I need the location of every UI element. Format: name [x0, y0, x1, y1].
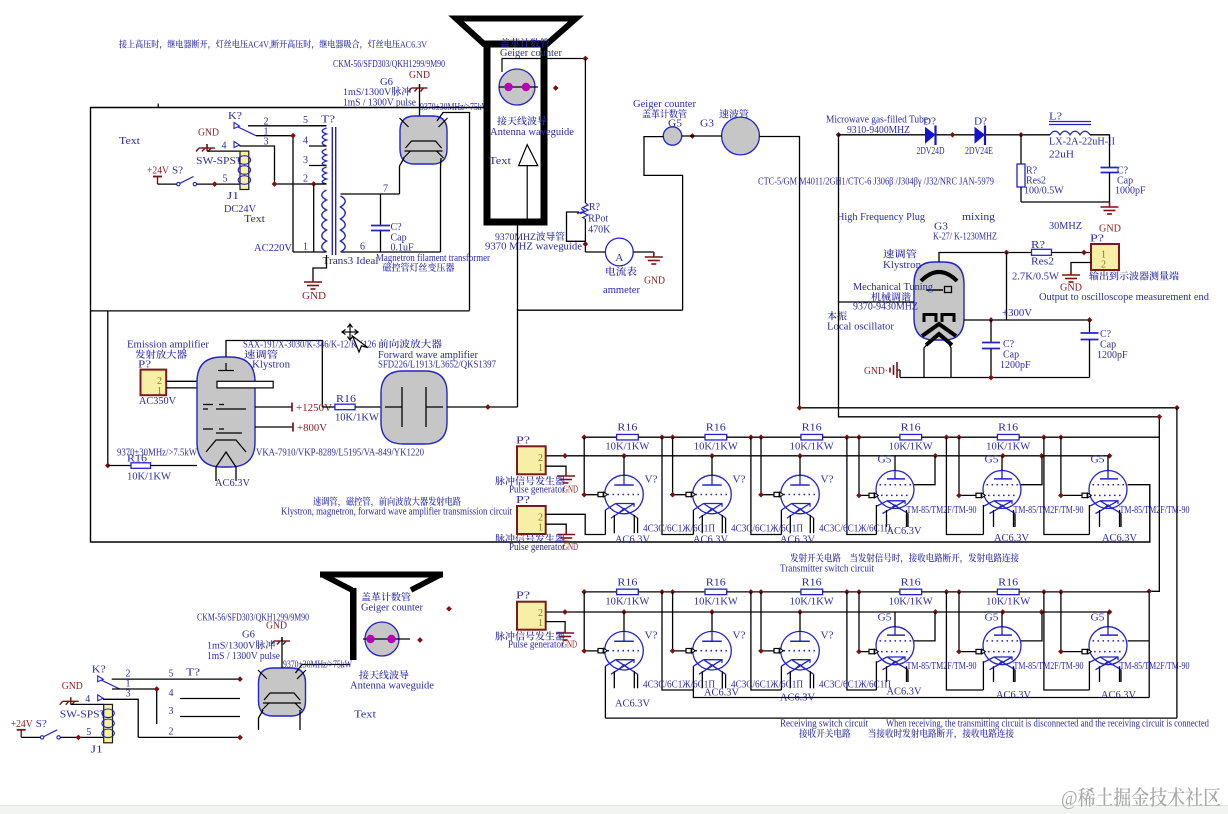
svg-text:5: 5 [303, 115, 308, 126]
net B down from diode line [839, 135, 1160, 698]
screen tap G5 cell4 [914, 612, 935, 641]
svg-text:V?: V? [733, 631, 747, 642]
svg-text:470K: 470K [588, 225, 611, 236]
waveguide output wire down [517, 225, 519, 407]
resistor R16 cell2 row2 [705, 589, 727, 595]
svg-text:TM-85/TM2F/TM-90: TM-85/TM2F/TM-90 [1120, 505, 1190, 516]
mechanical tuning wire [839, 301, 915, 303]
tube V5 row2 (tetrode G5) [983, 627, 1021, 670]
bottom bus row2 [605, 717, 1177, 719]
svg-text:G6: G6 [242, 630, 255, 641]
svg-text:1: 1 [303, 242, 308, 253]
svg-text:4C3C/6C1Ж/6C1П: 4C3C/6C1Ж/6C1П [643, 524, 715, 535]
note text top [119, 39, 427, 49]
wire R16 rail seg [584, 591, 616, 593]
svg-text:5: 5 [169, 668, 174, 679]
wire from geiger out down to pot [584, 59, 586, 204]
tube V1 row1 (triode V?) [605, 475, 644, 518]
left outer leg [875, 505, 877, 535]
left outer leg [982, 661, 984, 690]
anode lead [1107, 456, 1109, 471]
svg-text:Pulse generator: Pulse generator [509, 484, 566, 495]
svg-text:1200pF: 1200pF [1000, 360, 1031, 371]
heater jog wire cell3-4 [847, 437, 877, 534]
wire bottom LC [1021, 201, 1110, 203]
magnetron1 lead to 9370 wire [437, 113, 470, 311]
svg-text:Pulse generator: Pulse generator [508, 640, 565, 651]
tube V1 row2 (triode V?) [605, 631, 644, 674]
svg-text:4: 4 [85, 694, 90, 705]
labels klystron [883, 249, 916, 258]
left outer leg [780, 510, 782, 535]
left outer leg [604, 510, 606, 535]
svg-text:AC350V: AC350V [139, 396, 177, 407]
magnetron1 cathode leads [400, 158, 405, 194]
anode lead [1001, 612, 1003, 627]
svg-text:10K/1KW: 10K/1KW [889, 596, 934, 607]
svg-text:AC6.3V: AC6.3V [215, 478, 251, 489]
cavity slot [217, 381, 273, 388]
svg-text:J1: J1 [91, 744, 103, 755]
svg-text:10K/1KW: 10K/1KW [694, 596, 739, 607]
tube V2 row2 (triode V?) [693, 631, 732, 674]
heater legs [994, 666, 1016, 682]
svg-text:R16: R16 [617, 577, 637, 588]
svg-text:AC6.3V: AC6.3V [615, 699, 651, 710]
svg-text:Cap: Cap [1003, 350, 1019, 361]
svg-text:R16: R16 [706, 423, 726, 434]
heater jog wire cell4-5 [946, 437, 983, 534]
heater jog wire cell4-5 [946, 592, 983, 690]
heater legs [1100, 666, 1122, 682]
grid rail [1061, 437, 1082, 495]
tube V3 row2 (triode V?) [781, 631, 820, 674]
wire R16 rail seg [823, 436, 900, 438]
resistor R? Res2 2.7K [1032, 249, 1052, 255]
+1250V tap [255, 406, 292, 408]
left outer leg [875, 661, 877, 690]
anode lead [623, 456, 625, 476]
svg-text:GND: GND [62, 681, 83, 692]
capacitor C? 1200pF right [1089, 320, 1091, 333]
left outer leg [982, 505, 984, 535]
anode lead [711, 456, 713, 476]
svg-text:TM-85/TM2F/TM-90: TM-85/TM2F/TM-90 [907, 505, 977, 516]
svg-text:1: 1 [538, 618, 543, 629]
bottom page strip [0, 805, 1228, 814]
left outer leg [1088, 661, 1090, 690]
svg-text:D?: D? [923, 116, 937, 127]
klystron top lead [939, 253, 1032, 263]
resistor R16 cell5 row2 [997, 589, 1019, 595]
label 9370MHZ waveguide [495, 232, 564, 241]
svg-text:AC6.3V: AC6.3V [887, 526, 923, 537]
svg-text:Text: Text [244, 214, 265, 225]
label antenna waveguide [497, 116, 546, 125]
svg-text:4C3C/6C1Ж/6C1П: 4C3C/6C1Ж/6C1П [731, 524, 803, 535]
svg-text:Geiger counter: Geiger counter [361, 603, 424, 614]
svg-text:Receiving switch circuit: Receiving switch circuit [780, 719, 868, 730]
wire diode row [839, 134, 926, 136]
watermark [1062, 787, 1220, 809]
heater jog wire cell1-2 [662, 437, 693, 534]
svg-text:GND: GND [409, 70, 430, 81]
svg-text:TM-85/TM2F/TM-90: TM-85/TM2F/TM-90 [1014, 505, 1084, 516]
T?2 stub wires [112, 678, 240, 680]
svg-text:10K/1KW: 10K/1KW [605, 442, 650, 453]
grid rail [959, 437, 976, 495]
potentiometer R? RPot [583, 203, 588, 219]
svg-text:4C3C/6C1Ж/6C1П: 4C3C/6C1Ж/6C1П [731, 680, 803, 691]
svg-text:R16: R16 [901, 577, 921, 588]
svg-text:G6: G6 [380, 77, 393, 88]
svg-text:R16: R16 [998, 577, 1018, 588]
svg-text:C?: C? [391, 222, 403, 233]
klystron bottom leads [924, 340, 951, 378]
svg-text:4: 4 [169, 688, 174, 699]
svg-text:22uH: 22uH [1049, 150, 1074, 161]
left outer leg [692, 666, 694, 690]
wire R16 rail end [1019, 591, 1149, 593]
svg-text:10K/1KW: 10K/1KW [605, 596, 650, 607]
labels geiger2 [361, 592, 410, 601]
P3 pin1 to gnd [546, 622, 565, 628]
svg-text:SW-SPST: SW-SPST [60, 709, 107, 720]
grid rail [673, 437, 686, 495]
resistor R16 cell4 row2 [900, 589, 922, 595]
svg-text:2: 2 [1101, 260, 1106, 271]
svg-text:4C3C/6C1Ж/6C1П: 4C3C/6C1Ж/6C1П [819, 680, 891, 691]
svg-text:G5: G5 [1091, 455, 1105, 466]
svg-text:1200pF: 1200pF [1097, 350, 1128, 361]
svg-text:9370 MHZ waveguide: 9370 MHZ waveguide [485, 242, 583, 253]
geiger tube wire out [502, 59, 585, 73]
wave tube G3 [722, 117, 760, 155]
svg-text:V?: V? [821, 631, 835, 642]
svg-text:9370-9430MHZ: 9370-9430MHZ [853, 302, 918, 313]
svg-text:V?: V? [645, 475, 659, 486]
arrow up inside waveguide [526, 166, 528, 222]
anode lead [623, 612, 625, 632]
svg-text:Antenna waveguide: Antenna waveguide [350, 681, 435, 692]
svg-text:5: 5 [223, 174, 228, 185]
resistor R16 cell5 row1 [997, 434, 1019, 440]
svg-text:AC6.3V: AC6.3V [615, 534, 651, 545]
svg-text:Antenna waveguide: Antenna waveguide [490, 127, 575, 138]
tube V4 row2 (tetrode G5) [876, 627, 914, 670]
heater legs [994, 510, 1016, 527]
anode lead [1107, 612, 1109, 627]
resistor R16 cell4 row1 [900, 434, 922, 440]
svg-text:R16: R16 [127, 454, 147, 465]
svg-text:GND·: GND· [864, 366, 888, 377]
svg-text:R16: R16 [706, 577, 726, 588]
capacitor C? 1000pF [1101, 167, 1119, 169]
klystron local oscillator body [914, 262, 964, 340]
svg-text:3: 3 [264, 137, 269, 148]
svg-text:V?: V? [733, 475, 747, 486]
wire R16 rail seg [922, 591, 998, 593]
svg-text:0.1uF: 0.1uF [391, 243, 415, 254]
tube V6 row1 (tetrode G5) [1089, 471, 1127, 514]
heater legs [887, 666, 909, 682]
svg-text:+800V: +800V [297, 423, 328, 434]
svg-text:When receiving, the transmitti: When receiving, the transmitting circuit… [886, 719, 1209, 730]
heater legs [790, 671, 813, 688]
svg-text:S?: S? [172, 166, 184, 177]
svg-text:G5: G5 [1091, 612, 1105, 623]
screen line row2 [693, 690, 1149, 698]
capacitor C? 0.1uF [380, 194, 382, 226]
forward wave amplifier tube body [381, 371, 447, 444]
svg-text:A: A [615, 252, 623, 264]
label forward wave amplifier [378, 339, 441, 348]
grid bus row1 [546, 455, 1110, 457]
resistor R16 cell3 row2 [801, 589, 823, 595]
antenna waveguide horn top [456, 19, 576, 45]
svg-text:T?: T? [186, 667, 201, 678]
P2 pin2 staircase [546, 514, 606, 534]
svg-text:Local oscillator: Local oscillator [827, 322, 895, 333]
svg-text:C?: C? [1003, 339, 1015, 350]
svg-text:30MHZ: 30MHZ [1049, 221, 1082, 232]
svg-text:10K/1KW: 10K/1KW [889, 442, 934, 453]
magnetron2 leads [296, 665, 351, 674]
svg-text:Klystron: Klystron [883, 260, 921, 271]
svg-text:10K/1KW: 10K/1KW [986, 596, 1031, 607]
tube V3 row1 (triode V?) [781, 475, 820, 518]
svg-text:GND: GND [563, 542, 578, 553]
svg-text:+24V: +24V [11, 719, 34, 730]
anode lead [894, 612, 896, 627]
wire R16 rail end [1019, 436, 1159, 438]
grid rail [959, 592, 976, 652]
svg-text:AC6.3V: AC6.3V [996, 690, 1032, 701]
sense loop bottom wire [518, 309, 683, 311]
wire G3 right to net A [759, 137, 799, 408]
antenna horn 2 [320, 572, 443, 578]
svg-text:10K/1KW: 10K/1KW [694, 442, 739, 453]
caption transmitter [790, 553, 1018, 564]
svg-text:SW-SPST: SW-SPST [196, 156, 243, 167]
anode lead [799, 612, 801, 632]
svg-text:Transmitter switch circuit: Transmitter switch circuit [780, 564, 874, 575]
wire K2-T5 [248, 125, 327, 127]
relay coil J1 [207, 150, 240, 152]
svg-text:2DV24E: 2DV24E [965, 146, 993, 157]
svg-text:Klystron, magnetron, forward w: Klystron, magnetron, forward wave amplif… [281, 507, 512, 518]
svg-text:High Frequency Plug: High Frequency Plug [837, 212, 925, 223]
ground at ammeter [645, 252, 663, 264]
wire pin6 [341, 251, 441, 253]
resistor R16 cell1 row2 [617, 589, 639, 595]
svg-text:AC220V: AC220V [254, 243, 293, 254]
screen tap G5 cell5 [1021, 456, 1042, 485]
label 1mS/1300V pulse [344, 87, 411, 96]
svg-text:10K/1KW: 10K/1KW [790, 442, 835, 453]
label Geiger counter top [500, 38, 549, 47]
left outer leg [780, 666, 782, 690]
label ammeter [606, 266, 636, 275]
svg-text:Output to oscilloscope measure: Output to oscilloscope measurement end [1039, 292, 1209, 303]
svg-text:2: 2 [169, 727, 174, 738]
anode lead [1001, 456, 1003, 471]
resistor R? Res2 100/0.5W [1020, 135, 1022, 164]
net B start dot [836, 132, 842, 138]
section caption transmission circuit [313, 497, 461, 508]
net A horizontal and right vertical [800, 407, 1177, 409]
svg-text:9370±30MHz/>75kW: 9370±30MHz/>75kW [283, 660, 352, 671]
svg-text:6: 6 [360, 242, 365, 253]
svg-text:2DV24D: 2DV24D [917, 146, 945, 157]
+800V tap [255, 426, 293, 428]
heater legs [1100, 510, 1122, 527]
svg-text:GND: GND [302, 291, 326, 302]
svg-text:AC6.3V: AC6.3V [693, 534, 729, 545]
wire R16 rail seg [727, 591, 801, 593]
screen tap G5 cell4 [914, 456, 935, 485]
svg-text:10K/1KW: 10K/1KW [127, 472, 172, 483]
svg-text:P?: P? [516, 495, 531, 506]
svg-text:100/0.5W: 100/0.5W [1024, 186, 1064, 197]
screen tap G5 cell5 [1021, 612, 1042, 641]
heater jog wire cell2-3 [751, 437, 782, 534]
grid rail [859, 437, 869, 495]
svg-text:3: 3 [169, 706, 174, 717]
svg-text:AC6.3V: AC6.3V [994, 533, 1030, 544]
R16 resistor mid [322, 406, 335, 408]
heater legs [790, 515, 813, 533]
svg-text:G5: G5 [985, 612, 999, 623]
svg-text:mixing: mixing [962, 212, 995, 223]
wire K3 [240, 146, 327, 184]
magnetron tube 2 [258, 668, 306, 716]
svg-text:Mechanical Tuning: Mechanical Tuning [853, 282, 933, 293]
svg-text:Text: Text [119, 136, 140, 147]
svg-text:5: 5 [86, 727, 91, 738]
wire R16 rail seg [638, 591, 705, 593]
svg-text:4C3C/6C1Ж/6C1П: 4C3C/6C1Ж/6C1П [819, 524, 891, 535]
svg-text:TM-85/TM2F/TM-90: TM-85/TM2F/TM-90 [1014, 661, 1084, 672]
svg-text:K?: K? [92, 664, 107, 675]
svg-text:CTC-5/GM M4011/2GH1/CTC-6 J30: CTC-5/GM M4011/2GH1/CTC-6 J306β /J304βγ … [758, 177, 994, 188]
svg-text:CKM-56/SFD303/QKH1299/9M90: CKM-56/SFD303/QKH1299/9M90 [333, 59, 445, 70]
ground LC [1101, 202, 1119, 214]
tube V5 row1 (tetrode G5) [983, 471, 1021, 514]
svg-text:G5: G5 [878, 612, 892, 623]
left leg to bottom bus [604, 666, 606, 718]
svg-text:TM-85/TM2F/TM-90: TM-85/TM2F/TM-90 [1120, 661, 1190, 672]
svg-text:Geiger counter: Geiger counter [500, 48, 563, 59]
grid rail [584, 592, 598, 651]
ground klystron (side style) [899, 370, 901, 378]
svg-text:R16: R16 [901, 423, 921, 434]
svg-text:Text: Text [354, 710, 376, 721]
left outer leg [1088, 505, 1090, 535]
anode lead [894, 456, 896, 471]
switch S? [177, 182, 180, 185]
wire G5 left loop [644, 137, 683, 311]
wire R16 rail seg [727, 436, 801, 438]
funnel bottom [206, 440, 246, 452]
left outer leg [692, 510, 694, 535]
T? secondary winding right [341, 196, 346, 252]
emission tube top lead [226, 341, 322, 408]
svg-text:J1: J1 [227, 191, 239, 202]
svg-text:K-27/ K-1230MHZ: K-27/ K-1230MHZ [933, 232, 997, 243]
svg-text:SFD226/L1913/L3652/QKS1397: SFD226/L1913/L3652/QKS1397 [378, 360, 496, 371]
wire pin7 [341, 193, 400, 195]
svg-text:GND: GND [563, 484, 578, 495]
svg-text:G5: G5 [878, 455, 892, 466]
resistor R16 cell3 row1 [801, 434, 823, 440]
svg-text:7: 7 [383, 184, 388, 195]
resistor R16 cell1 row1 [617, 434, 639, 440]
svg-text:2: 2 [303, 174, 308, 185]
heater jog wire cell3-4 [847, 592, 877, 690]
svg-text:G3: G3 [700, 119, 714, 130]
svg-text:1000pF: 1000pF [1115, 186, 1146, 197]
T? primary windings left [322, 128, 327, 252]
grid rail [1061, 592, 1082, 652]
wire R16 rail seg [823, 591, 900, 593]
grid rail [859, 592, 869, 652]
grid dashes [203, 405, 246, 410]
svg-text:AC6.3V: AC6.3V [780, 534, 816, 545]
svg-text:CKM-56/SFD303/QKH1299/9M90: CKM-56/SFD303/QKH1299/9M90 [197, 613, 309, 624]
geiger tube G1 [499, 69, 535, 105]
heater legs [614, 515, 637, 533]
svg-text:R16: R16 [617, 423, 637, 434]
magnetron tube V1 [400, 116, 448, 164]
svg-text:1: 1 [538, 523, 543, 534]
svg-text:V?: V? [821, 475, 835, 486]
wire R16 rail seg [638, 436, 705, 438]
tube V6 row2 (tetrode G5) [1089, 627, 1127, 670]
svg-text:10K/1KW: 10K/1KW [986, 442, 1031, 453]
svg-text:Pulse generator: Pulse generator [509, 542, 566, 553]
wire AC220V pin1 [293, 251, 327, 253]
geiger counter tube G5 [663, 127, 681, 145]
svg-text:Magnetron filament transformer: Magnetron filament transformer [376, 253, 491, 264]
P1 pin1 to gnd [546, 466, 566, 471]
grid rail [761, 592, 774, 651]
svg-text:C?: C? [1100, 329, 1112, 340]
svg-text:+24V: +24V [147, 166, 170, 177]
svg-text:ammeter: ammeter [603, 285, 641, 296]
svg-text:GND: GND [198, 128, 219, 139]
svg-text:RPot: RPot [588, 214, 608, 225]
capacitor C? 1200pF left [990, 320, 992, 343]
svg-text:R?: R? [589, 202, 601, 213]
P2 pin1 to gnd [546, 524, 567, 529]
bottom relay section [11, 664, 120, 755]
forward amp output wire [447, 406, 518, 408]
svg-text:+300V: +300V [1002, 308, 1033, 319]
svg-text:Cap: Cap [1100, 340, 1116, 351]
svg-text:1mS / 1300V pulse: 1mS / 1300V pulse [207, 651, 281, 662]
ammeter A [585, 251, 605, 253]
svg-text:VKA-7910/VKP-8289/L5195/VA-849: VKA-7910/VKP-8289/L5195/VA-849/YK1220 [256, 448, 424, 459]
svg-text:Trans3 Ideal: Trans3 Ideal [323, 256, 379, 267]
waveguide column [487, 44, 544, 222]
grid rail [761, 437, 774, 495]
R16 resistor left [107, 311, 109, 466]
svg-text:T?: T? [321, 115, 336, 126]
+300V wire [964, 319, 1090, 321]
switch S?2 [40, 736, 43, 739]
svg-text:R?: R? [1031, 240, 1046, 251]
